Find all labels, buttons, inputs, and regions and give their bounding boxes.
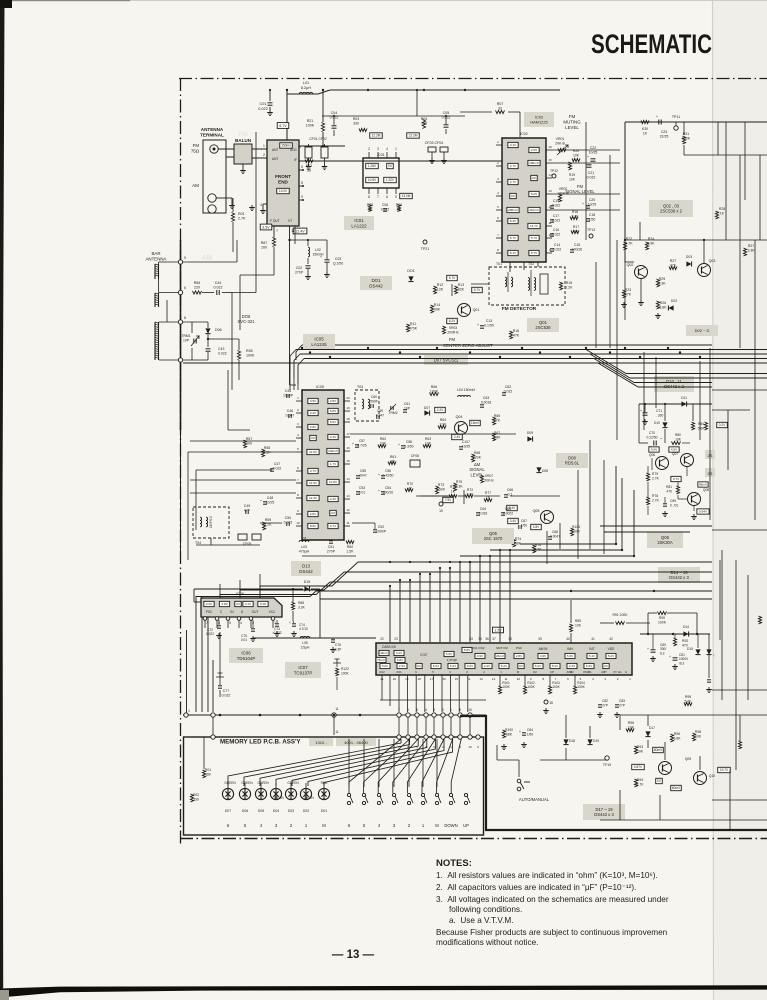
svg-text:36: 36 [485,637,489,641]
IC05 left pin 6 voltage 2.7V [308,468,318,473]
svg-text:R99: R99 [685,695,691,699]
svg-text:19: 19 [346,406,350,410]
svg-text:0.022: 0.022 [218,352,227,356]
svg-text:1K: 1K [451,489,456,493]
svg-text:4: 4 [425,708,427,712]
wire q05 to bus [559,523,561,549]
svg-text:10: 10 [439,509,443,513]
strip wires top [717,122,719,155]
svg-text:TF19: TF19 [603,763,611,767]
svg-text:150mH: 150mH [313,252,324,256]
svg-text:IC02: IC02 [520,132,528,136]
svg-text:0.01: 0.01 [241,638,247,642]
transistor Q10 [694,772,707,785]
svg-text:2.2V: 2.2V [437,408,444,412]
IC02 left pin 7 voltage 5.7V [508,235,518,240]
svg-text:1. All resistors values are i: 1. All resistors values are indicated in… [436,871,658,880]
svg-text:5.0V: 5.0V [446,652,452,656]
svg-text:+: + [669,655,671,659]
svg-text:23: 23 [394,637,398,641]
test point TF19 [605,756,609,760]
svg-text:2SK30A: 2SK30A [657,540,673,545]
svg-text:5.6V: 5.6V [567,654,573,658]
svg-text:15: 15 [346,459,350,463]
svg-text:Q05: Q05 [533,509,540,513]
svg-text:C20: C20 [589,198,595,202]
svg-text:L02: L02 [315,248,321,252]
svg-text:22/25: 22/25 [660,135,669,139]
svg-text:FRONT: FRONT [275,174,291,179]
transistor Q02 [635,266,648,279]
IC05 left pin 2 voltage 2.2V [308,410,318,415]
svg-text:4.9V: 4.9V [540,654,546,658]
svg-text:16.5*0.5: 16.5*0.5 [209,516,213,528]
svg-text:GREEN: GREEN [302,796,314,800]
IC05 left pin 5 voltage 11.8V [307,449,319,454]
svg-text:3.5V: 3.5V [310,399,317,403]
strip cap C85 [707,679,711,681]
wire vertical x617 [616,240,618,440]
svg-text:16: 16 [346,446,350,450]
svg-text:1310 -: 1310 - [315,740,327,745]
ground at AM terminal [216,197,232,199]
svg-text:4.8V: 4.8V [533,525,540,529]
bottom black band [0,985,767,997]
svg-text:15mV: 15mV [471,421,480,425]
svg-text:R16: R16 [513,329,519,333]
svg-text:SCHEMATIC: SCHEMATIC [591,29,712,59]
wire top rail jdots [286,89,288,91]
IC01 box [363,158,399,188]
bus verticals into IC07 [389,586,391,642]
svg-text:C06: C06 [382,203,388,207]
transistor Q09 [659,762,672,775]
svg-text:3.3K: 3.3K [298,605,306,609]
wire ic07 feed verticals [398,675,400,712]
svg-text:13: 13 [346,494,350,498]
svg-text:5.2V: 5.2V [467,664,473,668]
IC02 box [502,138,546,262]
svg-text:1: 1 [395,147,397,151]
switch S2 [362,793,365,796]
svg-text:R98: R98 [695,730,701,734]
svg-text:8: 8 [301,181,303,185]
svg-text:R64: R64 [440,418,446,422]
svg-text:38: 38 [508,637,512,641]
svg-text:190mV: 190mV [529,161,540,165]
svg-text:10P: 10P [183,338,190,342]
ground stub balun [242,164,244,168]
svg-text:INT: INT [589,647,594,651]
svg-text:270P: 270P [327,550,336,554]
svg-text:5.2V: 5.2V [552,664,558,668]
wire balun to frontend pin2 [252,157,267,159]
svg-text:IF: IF [294,158,297,162]
svg-text:R14: R14 [434,303,440,307]
front end right stubs [299,169,303,171]
svg-text:33: 33 [469,637,473,641]
svg-text:T04: T04 [195,541,201,545]
svg-text:C18: C18 [589,213,595,217]
IC06 feed rail [194,588,303,590]
svg-text:R21: R21 [307,119,314,123]
bus nest right steps [520,543,616,545]
svg-text:2.2K: 2.2K [565,286,573,290]
svg-text:1000P: 1000P [376,530,387,534]
svg-text:27P: 27P [619,703,626,707]
svg-text:3.3K: 3.3K [456,484,464,488]
svg-text:5.8V: 5.8V [464,648,470,652]
svg-text:5.7V: 5.7V [531,236,538,240]
svg-text:0V: 0V [417,664,421,668]
svg-text:R61: R61 [390,455,396,459]
svg-text:0.022: 0.022 [206,632,214,636]
wire am path [420,495,455,497]
svg-text:24mV: 24mV [496,654,504,658]
svg-text:1/50: 1/50 [527,732,534,736]
label Q05 2SC1570 [472,528,514,544]
svg-text:SIGNAL LEVEL: SIGNAL LEVEL [565,189,595,194]
svg-text:HAM1225: HAM1225 [530,119,547,124]
svg-text:5.0V: 5.0V [433,664,439,668]
label IC05 LA1245 [303,334,335,349]
svg-text:20K-B: 20K-B [555,142,565,146]
svg-text:R95: R95 [628,721,634,725]
wires right bottom [620,714,767,716]
svg-text:5.6K: 5.6K [698,426,706,430]
label 0.9V [649,447,659,452]
IC02 left pin 5 voltage 280mV [507,207,519,212]
IC06 shape [201,598,282,617]
IC01 pin ticks bottom [368,188,370,194]
wire right verticals low [643,352,645,430]
wire vertical x596 [595,262,597,348]
svg-text:C46: C46 [287,409,293,413]
svg-text:6.8K: 6.8K [674,736,682,740]
label IC06 TD6104P [229,648,263,663]
svg-text:D06: D06 [215,328,222,332]
pin 18 stub [544,700,548,704]
svg-text:0.2V: 0.2V [719,423,726,427]
node pin8 [178,320,182,324]
heavy cable line [460,716,767,830]
wire FM to balun [218,148,234,150]
svg-text:4: 4 [386,147,388,151]
svg-text:— 13 —: — 13 — [332,949,375,961]
svg-text:R66: R66 [431,385,437,389]
svg-text:0.7V: 0.7V [330,524,337,528]
svg-text:D06: D06 [242,809,248,813]
svg-text:C50: C50 [285,516,291,520]
svg-text:2.8V: 2.8V [310,512,317,516]
svg-text:0.87V: 0.87V [634,765,643,769]
wire right rail y155 [684,154,767,156]
svg-text:R70: R70 [407,482,413,486]
label D14-16 DS442x3 [658,567,700,583]
svg-text:1K: 1K [643,132,648,136]
svg-text:20K-B: 20K-B [484,478,494,482]
svg-text:1: 1 [274,621,276,625]
wire rail y638 [253,637,376,639]
svg-text:L01: L01 [303,81,309,85]
transistor Q03 [698,264,711,277]
svg-text:R26: R26 [660,301,666,305]
svg-text:0.047: 0.047 [286,414,295,418]
wire ic07 left pins down [381,675,383,700]
svg-text:4.7/10: 4.7/10 [299,627,308,631]
svg-text:1K: 1K [720,211,725,215]
svg-text:6.3: 6.3 [660,651,665,655]
label 6.2V [447,318,458,323]
label D07 SVC321 box [424,355,468,365]
svg-text:Q03: Q03 [709,259,716,263]
wire y634 rail [640,633,710,635]
label D10 11 DS442x2 [654,376,694,392]
svg-text:D15: D15 [687,647,693,651]
transformer T03 dashed box [355,390,379,421]
C01 symbol [269,90,271,101]
wire left web 2 [196,469,272,471]
svg-text:0.022: 0.022 [284,521,293,525]
IC05 left pin 10 voltage 8.8V [308,523,318,528]
junction dots mid bus [301,347,303,349]
svg-text:13.0V: 13.0V [279,189,288,193]
svg-text:10: 10 [468,745,472,749]
wire vertical x610 [609,155,611,348]
filter CF06 [410,460,420,467]
wire left web 1 [188,451,296,453]
svg-text:D02: D02 [303,809,309,813]
svg-text:5.1V: 5.1V [510,251,517,255]
svg-text:5: 5 [229,621,231,625]
svg-text:C49: C49 [244,504,250,508]
label 0.87V [632,764,645,769]
svg-text:D17: D17 [649,726,655,730]
svg-text:XT: XT [603,670,607,674]
switch S4 [392,793,395,796]
svg-text:D04: D04 [273,809,279,813]
svg-text:11: 11 [335,707,339,711]
svg-text:470μH: 470μH [299,550,310,554]
svg-text:3.8V: 3.8V [221,602,228,606]
label 5.4V [507,505,518,510]
svg-text:220: 220 [194,286,200,290]
svg-text:0.9V: 0.9V [477,654,483,658]
svg-text:R01: R01 [238,212,245,216]
svg-text:13.7V: 13.7V [530,224,539,228]
svg-text:R59: R59 [265,518,271,522]
svg-text:Q07: Q07 [672,452,678,456]
svg-text:+: + [378,489,380,493]
svg-text:2: 2 [442,708,444,712]
svg-text:100K: 100K [658,620,667,624]
svg-text:R124: R124 [572,525,580,529]
svg-text:2: 2 [368,147,370,151]
svg-text:DO1: DO1 [407,269,414,273]
svg-text:470K: 470K [409,327,418,331]
node pin6 [178,290,182,294]
svg-text:41: 41 [591,637,595,641]
svg-text:6.8K: 6.8K [659,306,667,310]
svg-text:5.7V: 5.7V [449,276,456,280]
svg-text:2.4V: 2.4V [484,664,490,668]
svg-text:12.3V: 12.3V [309,496,318,500]
svg-text:42: 42 [609,637,613,641]
svg-text:11: 11 [346,521,349,525]
svg-text:34: 34 [478,637,482,641]
svg-text:18: 18 [549,701,553,705]
transistor Q01 [458,304,471,317]
svg-text:2.2V: 2.2V [495,628,503,632]
svg-text:C45: C45 [285,389,291,393]
label 0V q09 [656,778,663,783]
svg-text:DATA 0/5: DATA 0/5 [382,645,396,649]
svg-text:D02 ~ D: D02 ~ D [695,328,710,333]
wire auto manual net [518,760,520,777]
wire right edge verticals [725,122,727,240]
svg-text:+: + [582,202,584,206]
svg-text:82K: 82K [458,288,465,292]
svg-text:2.3V: 2.3V [330,497,337,501]
label D02~D05 [686,325,718,336]
svg-text:+: + [260,499,262,503]
label 5.7V b [472,287,483,292]
IC02 left pin 2 voltage 2.7V [508,163,518,168]
bus left bundle verticals [201,596,203,712]
ground r26 [657,313,659,316]
svg-text:R63: R63 [425,437,431,441]
label D08 RD5.6L [556,453,588,468]
svg-text:10: 10 [517,677,521,681]
wire balun to frontend pin1 [252,148,267,150]
row1 terminal 1 [184,713,188,717]
svg-text:Q01: Q01 [473,308,480,312]
IC07 inner row1b [376,657,386,662]
page edge line right [713,0,714,1000]
pin8 net top wire [183,321,208,323]
svg-text:1: 1 [188,709,190,713]
svg-text:10: 10 [468,708,472,712]
filter CF05 [238,534,247,540]
svg-text:75Ω: 75Ω [191,148,200,153]
svg-text:22: 22 [380,637,384,641]
svg-text:0V: 0V [519,664,523,668]
bar antenna coil 1 [154,264,156,279]
label 2S cut b [705,468,715,477]
svg-text:D11: D11 [681,396,687,400]
svg-text:XT: XT [613,670,617,674]
svg-text:AM IN: AM IN [539,647,549,651]
svg-text:10: 10 [296,521,300,525]
svg-text:0.022: 0.022 [553,247,562,251]
svg-text:E1: E1 [618,670,622,674]
svg-text:68mV: 68mV [699,483,708,487]
bus nest horizontals [358,561,712,563]
svg-text:20: 20 [393,677,397,681]
svg-text:M: M [322,823,326,828]
IC02 right pin 11 voltage 13.7V [528,223,540,228]
svg-text:ANTENNA: ANTENNA [201,127,224,132]
wire rails y526 [600,525,712,527]
wire ic02 to detector drops [509,262,511,272]
row2 pins on box [211,735,215,739]
svg-text:TP12: TP12 [550,169,558,173]
svg-text:1: 1 [263,144,265,148]
svg-text:D10: D10 [654,421,660,425]
svg-text:C77: C77 [223,689,229,693]
vertical links rows [212,717,214,735]
svg-text:C01: C01 [260,102,267,106]
IC06 voltage boxes [204,601,214,606]
svg-text:330: 330 [353,122,359,126]
wire q03 collector [703,240,705,263]
wire q02 rail down [624,238,626,320]
node pin bottom [178,358,182,362]
svg-text:100K: 100K [527,685,535,689]
LED D07 [222,788,233,799]
front end box [267,140,299,226]
IC02 right pin 14 voltage 0V [531,175,537,180]
svg-text:a. Use a V.T.V.M.: a. Use a V.T.V.M. [449,916,513,925]
wire d18 d19 net [565,715,567,738]
svg-text:0.033: 0.033 [479,511,488,515]
IC02 right pin 12 voltage 310mV [528,207,540,212]
svg-text:5.2V: 5.2V [450,664,456,668]
svg-text:5.2V: 5.2V [586,664,592,668]
transistor Q04 [455,422,468,435]
switch S3 [377,793,380,796]
svg-text:39K: 39K [434,308,441,312]
pin 9 right [476,735,480,739]
svg-text:R73: R73 [438,483,444,487]
svg-text:D05: D05 [258,809,264,813]
svg-text:7: 7 [276,229,278,233]
svg-text:C21: C21 [588,171,594,175]
IC05 right pin 14 voltage 12.8V [327,479,339,484]
svg-text:END: END [278,180,288,185]
svg-text:+: + [519,730,521,734]
strip wires mid [712,389,767,391]
wire VT long vertical [255,291,257,293]
svg-text:MUT FM: MUT FM [496,646,508,650]
svg-text:100: 100 [261,246,267,250]
svg-text:11.8V: 11.8V [309,450,318,454]
svg-text:FM DETECTOR: FM DETECTOR [502,306,537,312]
svg-text:IC07: IC07 [420,653,427,657]
svg-text:VDD: VDD [608,647,615,651]
svg-text:470: 470 [666,489,672,493]
IC02 left pin 6 voltage 5.4V [508,218,518,223]
svg-text:VT: VT [288,219,292,223]
IC02 right pin 13 voltage 5.2V [529,191,539,196]
IC05 left pin 4 voltage 0V [310,435,316,440]
svg-text:D02: D02 [671,299,677,303]
IC01 voltage 10.5V [366,177,379,182]
inner frame vertical x625 [624,122,626,238]
label 3.4V [508,518,519,523]
label 15mV [470,420,481,425]
svg-text:R20: R20 [573,149,579,153]
svg-text:47K: 47K [625,293,632,297]
svg-text:1.5K: 1.5K [346,550,354,554]
IC05 right pin 17 voltage 2.3V [328,434,338,439]
svg-text:18: 18 [418,677,422,681]
svg-text:5.6K: 5.6K [685,699,693,703]
svg-text:2SC 1570: 2SC 1570 [484,536,503,541]
svg-text:2SC536 x 2: 2SC536 x 2 [660,209,683,214]
svg-text:R89: R89 [575,619,581,623]
svg-text:12.5V: 12.5V [309,481,318,485]
